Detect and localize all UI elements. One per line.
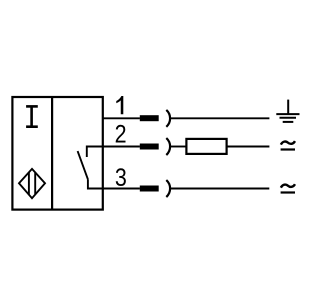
sensor body divider: [51, 97, 53, 210]
wire 2 to load: [171, 146, 187, 148]
pin 3: [140, 186, 159, 192]
wire 2 from body to pin: [103, 146, 140, 148]
wire 2 to supply: [227, 146, 270, 148]
switch blade: [78, 151, 88, 179]
socket arc 1: [166, 110, 170, 127]
AC/DC symbol wire 2: [281, 141, 295, 149]
svg-text:3: 3: [115, 163, 127, 191]
pin 2: [140, 144, 159, 150]
proximity sensor diamond: [19, 169, 45, 198]
wire 3 from body to pin: [103, 188, 140, 190]
diamond inner chords: [28, 172, 30, 194]
socket arc 3: [166, 180, 170, 197]
label 1: [116, 96, 123, 114]
sensor body outline: [12, 97, 102, 210]
pin 1: [140, 115, 159, 121]
label 2: [115, 120, 127, 148]
load resistor: [186, 139, 226, 154]
switch contact stub (wire 2): [87, 147, 103, 158]
switch pivot stub (wire 3): [88, 179, 103, 188]
wire 1 from body to pin: [103, 117, 140, 119]
socket arc 2: [166, 138, 170, 155]
inductive symbol I: [26, 106, 38, 126]
wire 3 to supply: [171, 188, 270, 190]
svg-text:2: 2: [115, 120, 127, 148]
AC/DC symbol wire 3: [281, 184, 295, 192]
earth ground: [276, 100, 299, 122]
label 3: [115, 163, 127, 191]
wire 1 to ground: [171, 117, 270, 119]
